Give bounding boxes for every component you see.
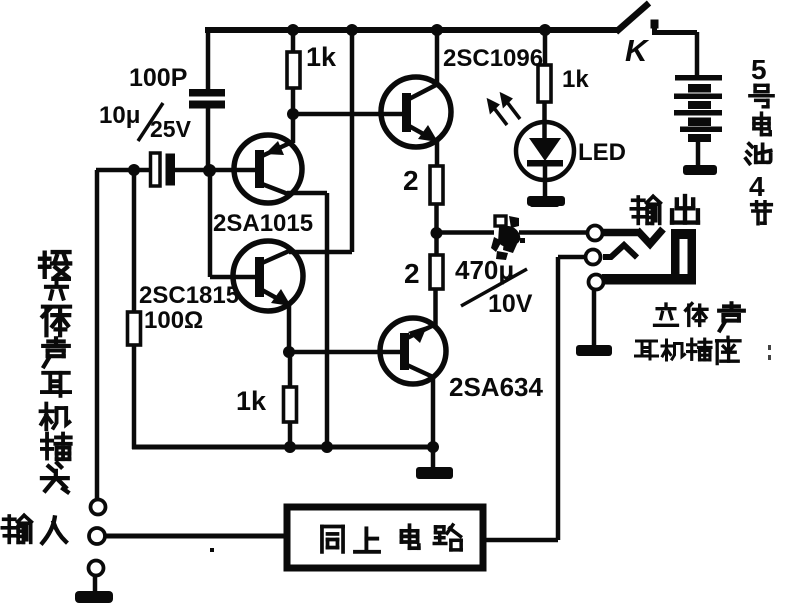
terminal sleeve circle [589, 275, 604, 290]
wire Q3 collector to rail [435, 30, 440, 84]
svg-text:1k: 1k [562, 66, 589, 93]
svg-text:1k: 1k [236, 386, 267, 416]
terminal tip circle [588, 226, 603, 241]
node rail dot Q3 collector [431, 24, 443, 36]
resistor R4 2ohm [430, 166, 443, 204]
transistor Q2 2SC1815 [233, 241, 303, 311]
svg-text:5: 5 [751, 54, 767, 85]
jack ring contact [603, 245, 637, 258]
node rail dot Q2 collector riser [346, 24, 358, 36]
wire C3 to jack tip terminal [519, 230, 587, 235]
capacitor C3 470u/10V (smudged print) [491, 216, 525, 260]
transistor Q3 2SC1096 [381, 77, 451, 147]
wire base link to Q2 [210, 170, 256, 277]
switch K lever [616, 3, 649, 32]
ground symbol main [416, 447, 453, 479]
svg-text:100Ω: 100Ω [144, 307, 203, 334]
svg-text:10V: 10V [488, 290, 533, 318]
wire R4 to output node [434, 204, 439, 233]
input terminal tip circle [91, 500, 106, 515]
ground symbol input [75, 591, 113, 603]
svg-text:2: 2 [404, 258, 420, 289]
wire input base line [96, 168, 256, 173]
resistor R1 1k [287, 52, 300, 88]
wire ring to lower channel box [105, 534, 285, 539]
LED light arrows [489, 95, 520, 125]
svg-text:2SA1015: 2SA1015 [213, 210, 313, 237]
wire from second channel riser [486, 257, 586, 540]
node ground rail dot Q4 collector [427, 441, 439, 453]
label battery 5号电池4节 vertical [746, 54, 773, 224]
wire battery negative stem [696, 142, 701, 165]
svg-text:2SC1096: 2SC1096 [443, 45, 543, 72]
ground symbol LED [527, 196, 565, 206]
wire output node to C3 [437, 230, 495, 235]
wire bias branch to 100ohm [132, 170, 137, 449]
jack tip contact [603, 229, 663, 244]
resistor R5 2ohm [430, 255, 443, 289]
svg-text:2SA634: 2SA634 [449, 372, 543, 402]
svg-text:10μ: 10μ [99, 102, 140, 129]
wire Q2 collector to rail [289, 30, 352, 252]
wire emitter node to Q4 base [289, 350, 402, 355]
wire R5 to Q4 emitter [433, 289, 438, 326]
wire 100P branch from rail [206, 30, 211, 170]
svg-text:K: K [625, 33, 650, 68]
node output junction dot [431, 227, 443, 239]
switch K contact dot [651, 20, 659, 29]
capacitor C1 100P [189, 89, 225, 109]
LED D1 [516, 122, 574, 196]
wire R6 to LED [542, 102, 547, 139]
resistor R3 1k lower stubs [288, 352, 293, 449]
print speck [210, 548, 214, 552]
wire Q1 collector down to ground rail [287, 193, 327, 449]
node Q2 emitter junction dot [283, 346, 295, 358]
terminal ring circle [586, 250, 601, 265]
resistor R2 100ohm [128, 312, 141, 345]
wire Q2 emitter to node [287, 304, 292, 353]
input terminal sleeve circle [89, 561, 104, 576]
print artifact dash [530, 198, 559, 207]
wire ground bottom rail [132, 445, 433, 450]
resistor R6 1k [538, 65, 551, 102]
wire Q4 collector to ground rail [431, 377, 436, 447]
node base junction dot [203, 164, 216, 177]
wire sleeve to ground [93, 575, 98, 591]
capacitor C2 10u/25V electrolytic [151, 153, 176, 186]
resistor R3 1k [284, 387, 297, 422]
label C2 10u/25V [99, 102, 192, 142]
resistor R1 1k upper stubs [291, 30, 296, 114]
wire left input drop [95, 170, 100, 500]
node ground rail dot Q1 collector [321, 441, 333, 453]
print artifact colon [768, 345, 771, 360]
node rail dot LED branch [539, 24, 551, 36]
label jack 立体声 [655, 303, 744, 330]
node input junction dot [128, 164, 140, 176]
label output 输出 [631, 196, 698, 223]
svg-text:25V: 25V [150, 116, 192, 142]
wire switch to battery [655, 26, 698, 76]
label input 输入 [2, 515, 66, 543]
svg-text:LED: LED [578, 139, 626, 166]
svg-text:4: 4 [749, 171, 765, 202]
wire output node to R5 [434, 233, 439, 255]
node emitter/base junction dot [287, 108, 299, 120]
label C3 slash [461, 269, 527, 306]
wire V+ top rail [205, 27, 618, 33]
svg-text:2: 2 [403, 165, 419, 196]
wire LED branch from rail [543, 30, 548, 65]
label jack 耳机插座 [636, 337, 741, 363]
svg-text:2SC1815: 2SC1815 [139, 282, 239, 309]
jack body bracket [671, 229, 696, 283]
label plug column 接立体声耳机插头 [40, 252, 71, 492]
box lower channel 同上电路 [287, 507, 483, 568]
svg-text:100P: 100P [129, 64, 187, 92]
wire Q3 emitter to R4 [435, 140, 440, 166]
jack sleeve bar [602, 274, 696, 285]
transistor Q4 2SA634 [380, 318, 446, 384]
node rail dot R1 [287, 24, 299, 36]
svg-text:1k: 1k [306, 42, 337, 72]
ground symbol battery [683, 165, 717, 175]
wire Q1 emitter node to Q3 base [293, 112, 404, 117]
label box 同上电路 [322, 525, 461, 552]
node ground rail dot R3 [284, 441, 296, 453]
transistor Q1 2SA1015 [234, 114, 302, 203]
ground symbol jack [576, 345, 612, 356]
battery B1 4 cells [674, 75, 722, 142]
wire sleeve to ground [592, 289, 597, 345]
input terminal ring circle [89, 528, 105, 544]
